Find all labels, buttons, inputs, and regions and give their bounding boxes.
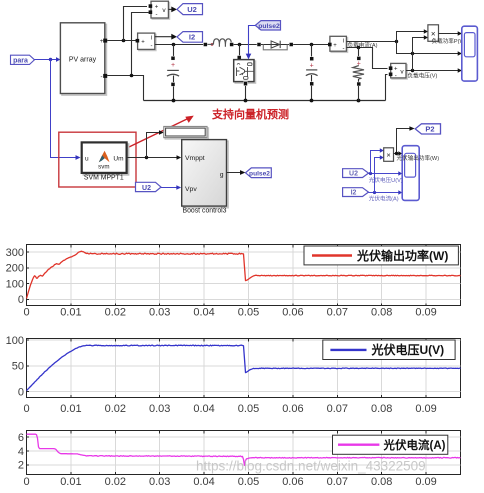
svg-text:4: 4 [18, 446, 24, 458]
svg-text:0.01: 0.01 [60, 476, 81, 488]
diode D1 [257, 41, 293, 50]
svg-text:https://blog.csdn.net/weixin_4: https://blog.csdn.net/weixin_43322509 [196, 459, 426, 474]
svg-text:+: + [310, 62, 314, 69]
wire i signal to product and scope in2 [346, 29, 462, 55]
svg-text:0.04: 0.04 [193, 476, 214, 488]
svg-text:0.04: 0.04 [193, 307, 214, 319]
blue gate wire pulse2 to IGBT [246, 26, 256, 60]
plot 3 x labels [23, 476, 436, 488]
wire v to goto U2 [168, 7, 177, 13]
wire product2 to P2 [397, 126, 415, 153]
wire g to goto pulse2 [227, 170, 246, 175]
plot 3 gridlines [27, 431, 461, 474]
svg-text:光伏输出功率(W): 光伏输出功率(W) [356, 248, 448, 263]
goto tag I2 [177, 32, 203, 43]
plot 3 ticks [27, 431, 427, 475]
svg-text:-: - [343, 46, 345, 52]
wire para to PV array [35, 57, 61, 62]
svg-text:P2: P2 [425, 125, 434, 134]
svg-text:光伏电流(A): 光伏电流(A) [383, 438, 446, 452]
svg-text:6: 6 [18, 432, 24, 444]
svg-text:svm: svm [98, 164, 109, 171]
svg-text:0.09: 0.09 [415, 307, 436, 319]
plot 2 curve: PV voltage [27, 345, 461, 391]
wire i to goto I2 [155, 34, 177, 40]
svg-text:i: i [343, 39, 344, 45]
from tag U2 (bottom) [136, 182, 162, 192]
svg-text:pulse2: pulse2 [249, 170, 270, 177]
goto tag U2 [177, 4, 203, 15]
svg-text:Boost control3: Boost control3 [182, 208, 226, 215]
inport tag para [11, 55, 35, 64]
SVM MPPT1 block [82, 142, 129, 174]
load voltage sensor [389, 63, 407, 79]
svg-text:I2: I2 [189, 33, 195, 42]
svg-text:0: 0 [23, 476, 29, 488]
plot 1 curve: PV output power [27, 251, 461, 298]
plot 2 legend [323, 340, 455, 360]
svg-text:0.01: 0.01 [60, 307, 81, 319]
wire para branch to SVM u [51, 60, 81, 160]
svg-text:支持向量机预测: 支持向量机预测 [211, 107, 289, 121]
plot 1 legend [304, 246, 458, 265]
inductor L1 [203, 39, 233, 47]
load current sensor [328, 36, 348, 52]
svg-text:Vmppt: Vmppt [185, 155, 205, 162]
scope load (right) [462, 26, 478, 81]
svg-text:-: - [156, 12, 158, 18]
svg-text:+: + [141, 40, 145, 46]
scope PV (mid right) [402, 146, 419, 201]
blue wire U2 to scope and product [369, 148, 403, 176]
red annotation rectangle [59, 132, 136, 187]
svg-text:100: 100 [6, 335, 24, 347]
svg-text:i: i [151, 36, 152, 42]
load resistor R1 [353, 48, 364, 101]
plot 2 x labels [23, 403, 436, 415]
wire branch to display [147, 130, 164, 157]
svg-text:+: + [333, 43, 337, 49]
svg-text:×: × [386, 151, 390, 160]
plot 1 gridlines [27, 245, 461, 305]
bottom rail [144, 99, 386, 103]
svg-text:2: 2 [18, 460, 24, 472]
svg-text:50: 50 [12, 361, 24, 373]
display block [164, 127, 209, 140]
svg-text:0.03: 0.03 [149, 476, 170, 488]
svg-text:Vpv: Vpv [185, 186, 197, 193]
goto tag pulse2 (bottom) [246, 168, 272, 178]
svg-text:0.07: 0.07 [327, 307, 348, 319]
svg-text:SVM MPPT1: SVM MPPT1 [84, 174, 124, 181]
svg-text:0.08: 0.08 [371, 307, 392, 319]
wire product to scope in1 [439, 31, 462, 35]
plot 1 x labels [23, 307, 436, 319]
svg-text:-: - [395, 74, 397, 80]
svg-text:+: + [394, 67, 398, 73]
IGBT Q1 [234, 60, 256, 84]
svg-text:0.08: 0.08 [371, 476, 392, 488]
svg-text:光伏电流(A): 光伏电流(A) [369, 195, 399, 203]
svg-text:U2: U2 [187, 5, 197, 14]
svg-text:0.01: 0.01 [60, 403, 81, 415]
svg-text:负载电压(V): 负载电压(V) [408, 71, 438, 79]
svg-text:0.07: 0.07 [327, 476, 348, 488]
svg-text:U2: U2 [349, 171, 358, 178]
svg-text:0.07: 0.07 [327, 403, 348, 415]
plot 3 legend [333, 435, 448, 454]
current sensor I (PV) [136, 33, 156, 51]
from tag I2 (right) [343, 188, 369, 197]
svg-text:para: para [13, 57, 28, 64]
svg-text:PV array: PV array [69, 56, 97, 63]
wire v signal to product and scope in3 [406, 35, 462, 72]
svg-text:0: 0 [18, 294, 24, 306]
svg-text:300: 300 [6, 247, 24, 259]
svg-text:200: 200 [6, 263, 24, 275]
svg-text:0.06: 0.06 [282, 403, 303, 415]
svg-text:光伏输出功率(W): 光伏输出功率(W) [397, 154, 440, 162]
svg-text:0: 0 [18, 387, 24, 399]
svg-text:0: 0 [23, 307, 29, 319]
svg-text:I2: I2 [351, 190, 357, 197]
svg-text:+: + [155, 5, 159, 11]
svg-text:100: 100 [6, 278, 24, 290]
svg-text:0.04: 0.04 [193, 403, 214, 415]
plot 2 y labels [6, 335, 24, 399]
svg-text:+: + [171, 62, 175, 69]
svg-text:0.09: 0.09 [415, 403, 436, 415]
wire to voltage sensor + [124, 7, 148, 41]
wire product2 out junction [394, 151, 403, 156]
svg-text:0.06: 0.06 [282, 307, 303, 319]
svg-text:×: × [431, 29, 436, 38]
wire load rail to resistor and V+ [346, 46, 387, 69]
rail inductor to diode [234, 43, 257, 47]
plot 2 axes box [27, 339, 461, 398]
blue wire I2 to scope and product [369, 155, 403, 195]
plot 2 gridlines [27, 339, 461, 397]
svg-text:-: - [151, 44, 153, 50]
main rail current sensor to inductor [155, 43, 204, 47]
svg-text:u: u [85, 155, 89, 162]
svg-text:U2: U2 [142, 185, 151, 192]
output capacitor C2 [306, 45, 318, 101]
wire bottom rail to V- [386, 75, 388, 101]
product block PV power [384, 148, 394, 162]
svg-text:0.03: 0.03 [149, 307, 170, 319]
goto tag P2 [415, 124, 440, 134]
product block load power [428, 25, 439, 42]
svg-text:光伏电压U(V): 光伏电压U(V) [371, 342, 445, 357]
svg-text:g: g [220, 171, 224, 178]
IGBT source to bottom rail [244, 82, 248, 101]
red arrow [129, 116, 194, 147]
from tag pulse2 (gate, top) [255, 21, 280, 30]
svg-text:0.05: 0.05 [238, 403, 259, 415]
plot 3 curve: PV current [27, 434, 461, 465]
blue wire U2 to Vpv [161, 185, 181, 190]
plot 2 ticks [27, 339, 427, 398]
rail diode to load sensor [293, 43, 328, 47]
svg-text:光伏电压U(V): 光伏电压U(V) [369, 176, 403, 184]
PV array block [60, 23, 107, 95]
plot 3 y labels [18, 432, 24, 472]
svg-text:pulse2: pulse2 [258, 23, 280, 30]
boost control3 block [182, 140, 228, 208]
svg-text:0.08: 0.08 [371, 403, 392, 415]
wire PV- to voltage sensor - and bottom rail [107, 13, 148, 101]
plot 1 axes box [27, 245, 461, 306]
svg-text:0: 0 [23, 403, 29, 415]
wire PV+ rail to current sensor [107, 39, 136, 43]
svg-text:0.02: 0.02 [105, 476, 126, 488]
svg-text:0.02: 0.02 [105, 307, 126, 319]
svg-text:-: - [101, 75, 103, 81]
svg-text:0.02: 0.02 [105, 403, 126, 415]
voltage sensor U (PV) [149, 1, 170, 19]
from tag U2 (right) [343, 169, 369, 178]
plot 3 axes box [27, 431, 461, 475]
svg-text:0.09: 0.09 [415, 476, 436, 488]
svg-text:0.03: 0.03 [149, 403, 170, 415]
plot 1 y labels [6, 247, 24, 306]
svg-text:Um: Um [113, 155, 123, 162]
svg-text:0.05: 0.05 [238, 307, 259, 319]
wire Um to Vmppt [127, 155, 182, 160]
svg-text:+: + [100, 39, 104, 45]
plot 1 ticks [27, 245, 427, 306]
svg-text:0.06: 0.06 [282, 476, 303, 488]
wire rail to IGBT drain [237, 45, 241, 60]
input capacitor C1 [167, 45, 179, 101]
svg-text:0.05: 0.05 [238, 476, 259, 488]
